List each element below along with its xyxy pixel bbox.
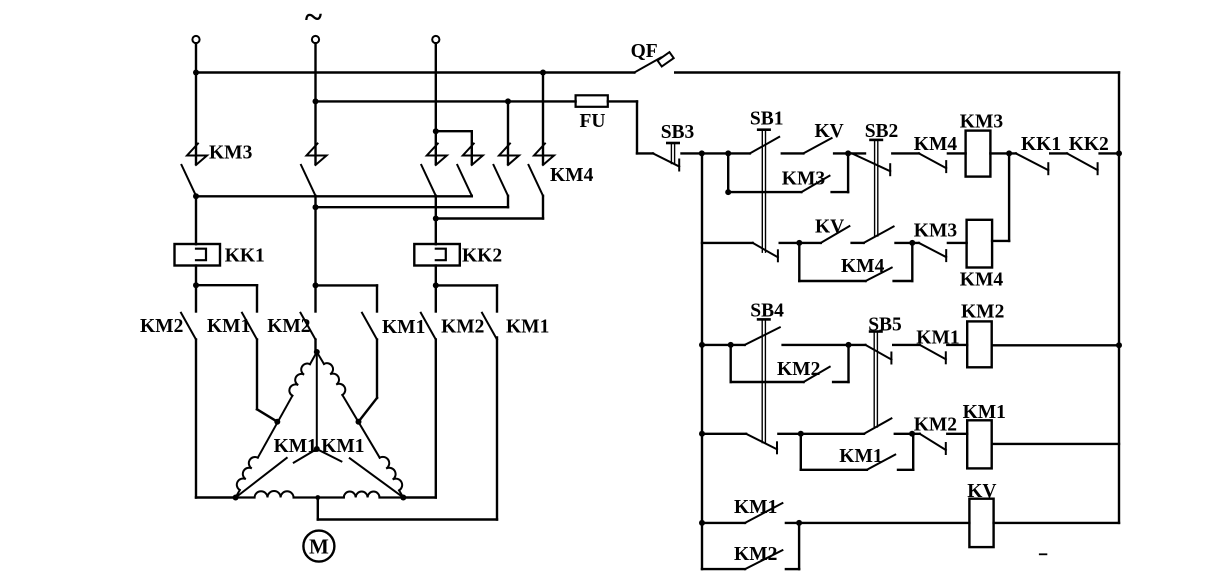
svg-text:KM2: KM2 (777, 359, 820, 380)
svg-text:KM1: KM1 (207, 316, 250, 337)
svg-text:KM3: KM3 (209, 143, 253, 164)
svg-text:SB5: SB5 (868, 315, 902, 336)
svg-text:KM1: KM1 (382, 317, 425, 338)
svg-text:KV: KV (967, 481, 996, 502)
svg-text:KM2: KM2 (914, 415, 957, 436)
svg-text:KK1: KK1 (225, 246, 265, 267)
svg-text:KM4: KM4 (960, 270, 1004, 291)
svg-text:KM4: KM4 (914, 134, 958, 155)
svg-text:~: ~ (305, 0, 322, 36)
svg-text:KM3: KM3 (782, 169, 826, 190)
svg-text:SB1: SB1 (750, 109, 784, 130)
svg-text:KK2: KK2 (1069, 134, 1109, 155)
svg-text:KM1: KM1 (916, 328, 959, 349)
svg-text:KM3: KM3 (914, 221, 958, 242)
svg-text:KM2: KM2 (140, 316, 183, 337)
svg-text:KM2: KM2 (267, 316, 310, 337)
svg-text:KV: KV (815, 121, 844, 142)
svg-text:KV: KV (815, 217, 844, 238)
svg-text:KK1: KK1 (1021, 134, 1061, 155)
svg-text:KK2: KK2 (462, 246, 502, 267)
svg-text:KM1: KM1 (839, 446, 882, 467)
svg-text:KM2: KM2 (961, 302, 1004, 323)
svg-text:FU: FU (580, 111, 606, 132)
svg-text:KM1: KM1 (734, 497, 777, 518)
svg-text:KM1: KM1 (274, 436, 317, 457)
svg-text:SB4: SB4 (750, 301, 784, 322)
svg-text:KM1: KM1 (963, 402, 1006, 423)
svg-text:KM2: KM2 (441, 317, 484, 338)
svg-text:QF: QF (631, 41, 658, 62)
svg-text:KM3: KM3 (960, 112, 1004, 133)
svg-text:KM2: KM2 (734, 544, 777, 565)
svg-text:KM4: KM4 (841, 256, 885, 277)
svg-text:M: M (309, 535, 329, 559)
svg-text:KM1: KM1 (321, 436, 364, 457)
svg-text:SB2: SB2 (865, 121, 899, 142)
svg-text:KM4: KM4 (550, 165, 594, 186)
svg-text:SB3: SB3 (661, 122, 695, 143)
svg-text:KM1: KM1 (506, 317, 549, 338)
